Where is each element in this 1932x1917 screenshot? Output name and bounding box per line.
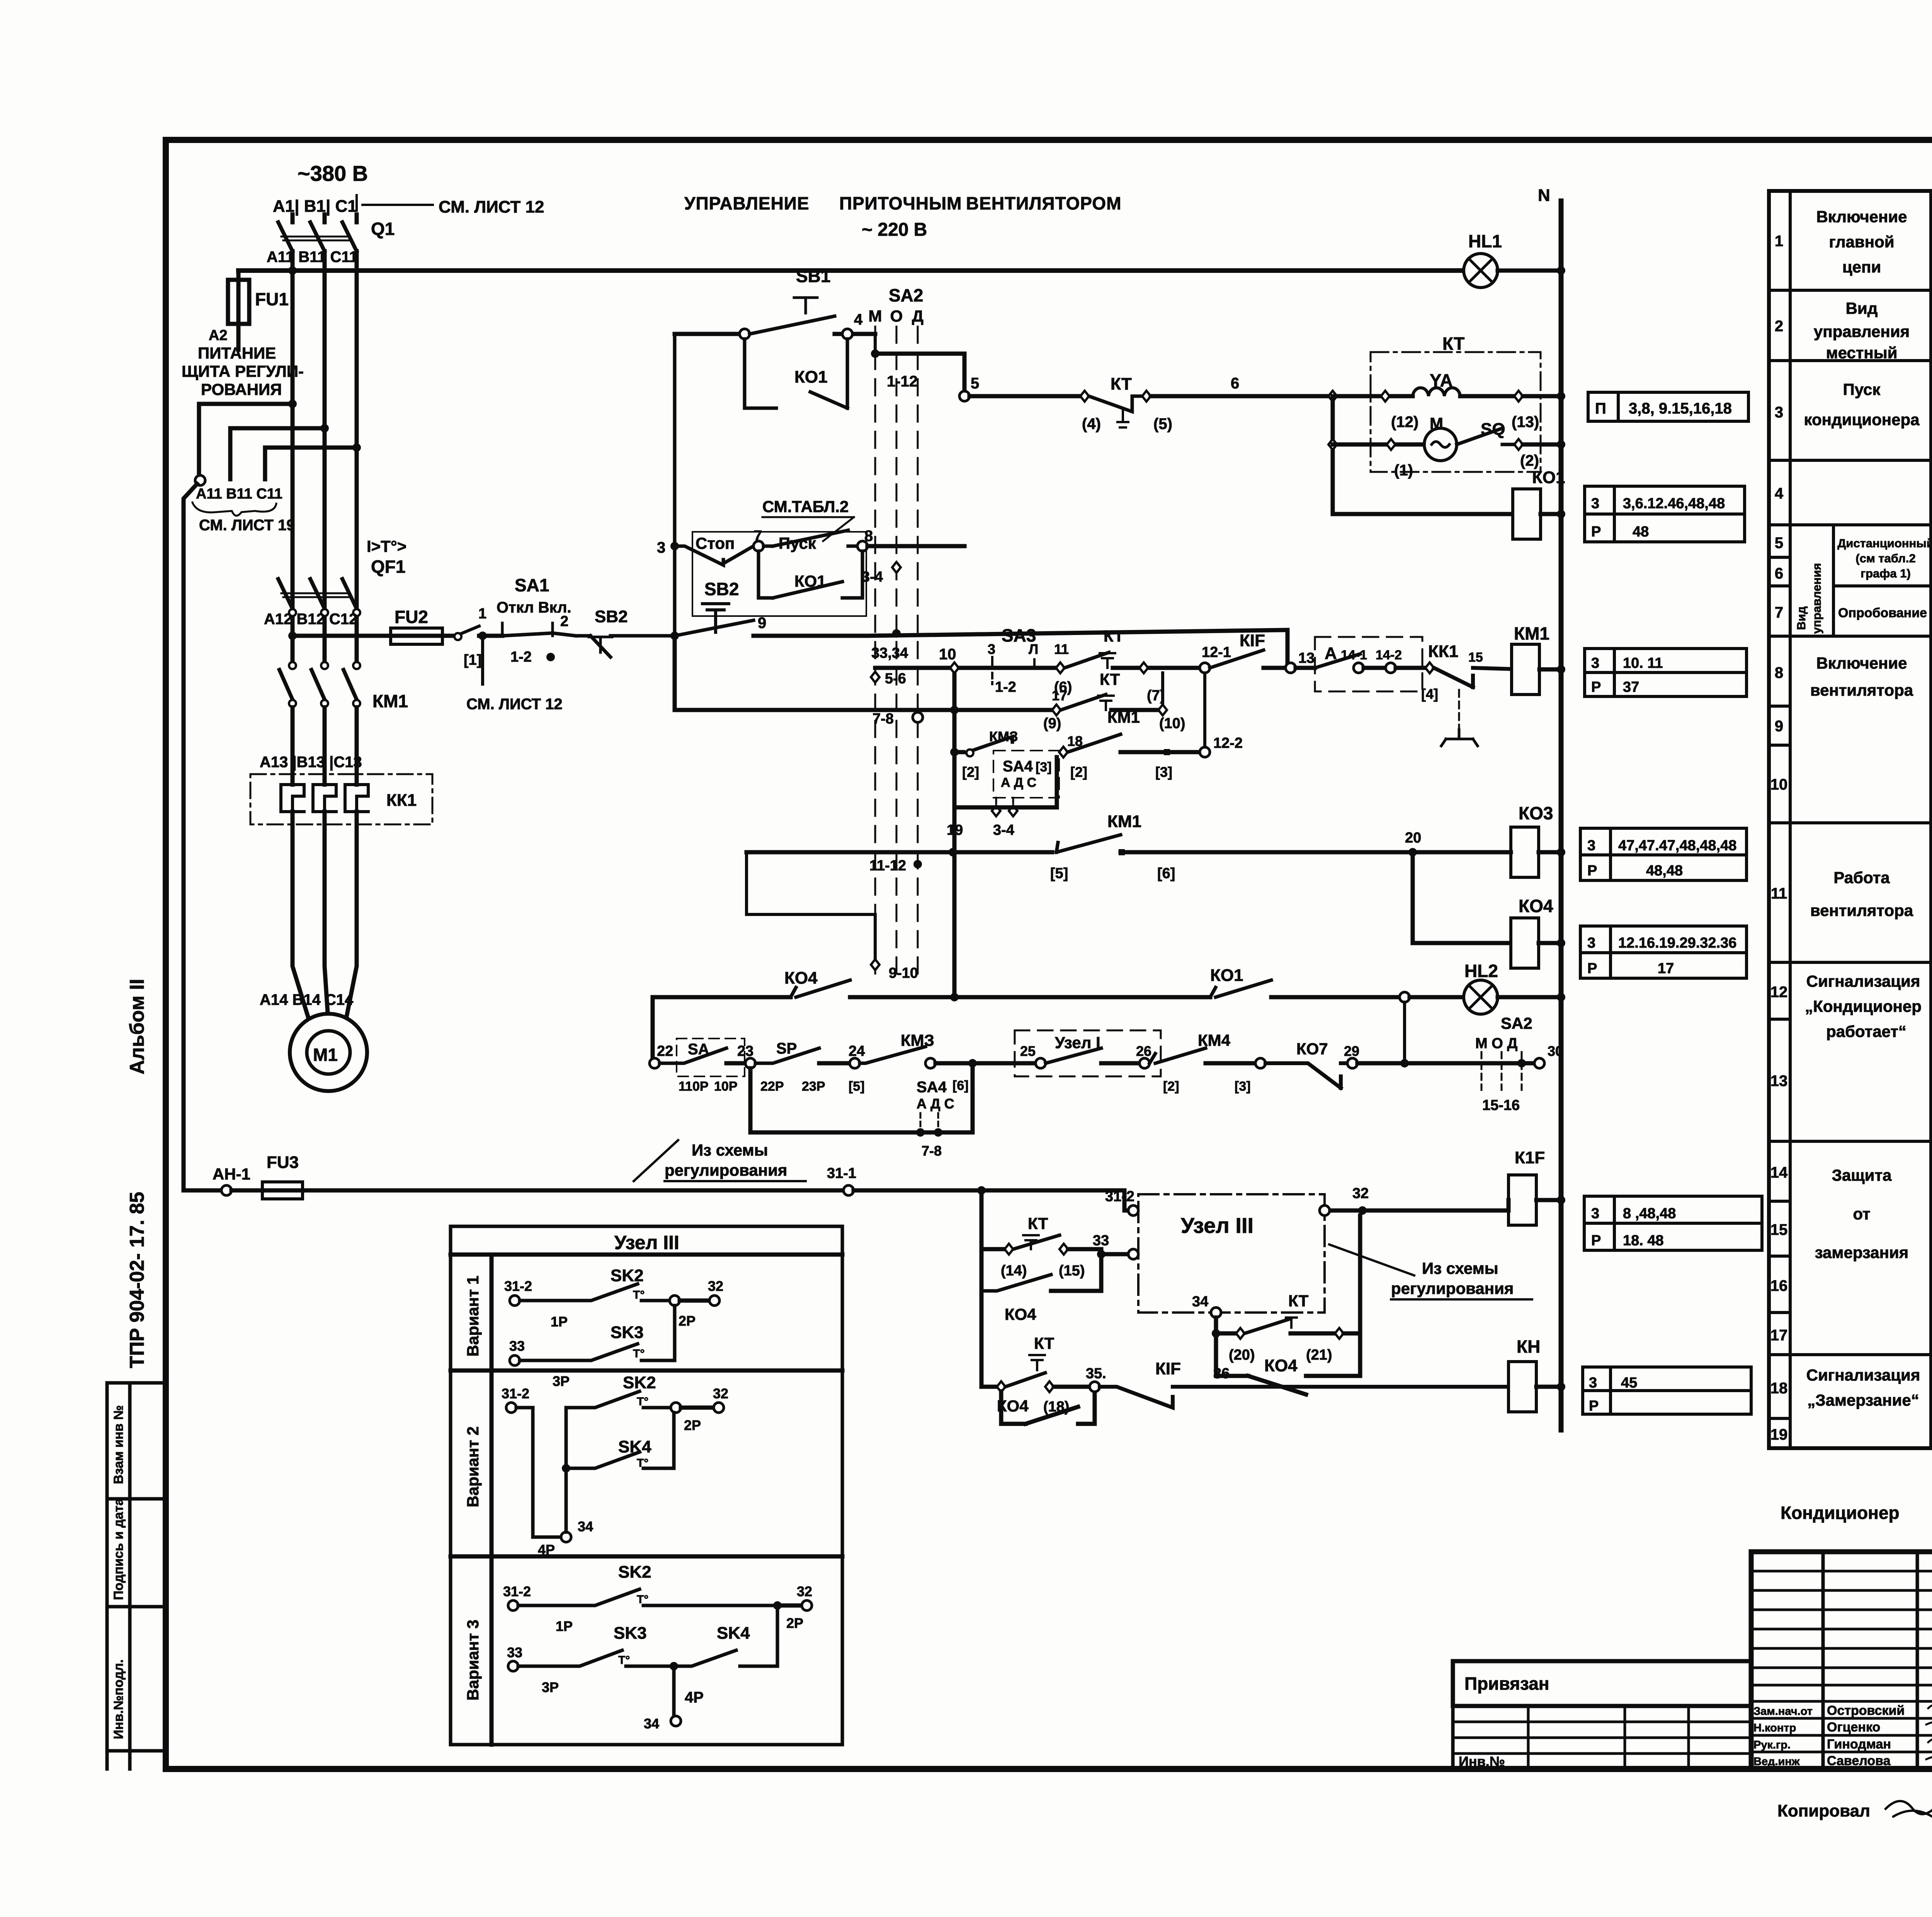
svg-text:48: 48 <box>1633 524 1649 540</box>
left margin stamp column <box>107 1383 166 1769</box>
svg-text:Огценко: Огценко <box>1827 1720 1880 1735</box>
svg-text:управления: управления <box>1810 563 1823 634</box>
svg-text:15: 15 <box>1468 650 1483 665</box>
wire row 22 chain <box>651 997 655 1063</box>
svg-text:(9): (9) <box>1043 715 1061 732</box>
mid rail <box>952 668 957 997</box>
ref box 3/Р 8,48,48 <box>1584 1196 1762 1250</box>
svg-text:(5): (5) <box>1153 415 1172 432</box>
svg-text:10Р: 10Р <box>714 1079 738 1094</box>
svg-text:SA2: SA2 <box>889 285 923 305</box>
phase wires to motor <box>293 812 357 1020</box>
ref box 3/Р 10,11 <box>1585 649 1747 696</box>
svg-text:24: 24 <box>849 1043 865 1059</box>
svg-text:14-2: 14-2 <box>1376 648 1402 662</box>
svg-text:КО4: КО4 <box>1264 1356 1298 1375</box>
svg-text:32: 32 <box>797 1583 812 1599</box>
svg-text:25: 25 <box>1020 1043 1036 1059</box>
svg-text:8 ,48,48: 8 ,48,48 <box>1623 1205 1676 1222</box>
svg-text:14: 14 <box>1770 1164 1788 1181</box>
svg-text:11-12: 11-12 <box>869 858 906 874</box>
svg-text:КМ1: КМ1 <box>1107 812 1141 831</box>
svg-text:9: 9 <box>758 615 766 632</box>
svg-text:SA4: SA4 <box>1003 758 1033 775</box>
svg-text:Инв.№: Инв.№ <box>1459 1754 1505 1769</box>
motor M1 <box>290 1014 367 1091</box>
SA2 contact 9-10 link <box>747 852 875 959</box>
svg-text:16: 16 <box>1770 1277 1788 1294</box>
svg-text:главной: главной <box>1829 233 1894 251</box>
svg-text:Пуск: Пуск <box>1843 380 1881 398</box>
svg-text:ВЕНТИЛЯТОРОМ: ВЕНТИЛЯТОРОМ <box>966 193 1122 213</box>
svg-text:48,48: 48,48 <box>1646 863 1683 879</box>
svg-text:от: от <box>1853 1205 1870 1223</box>
SA2 contact 5-6 <box>871 672 879 683</box>
svg-text:(2): (2) <box>1520 452 1539 469</box>
svg-text:11: 11 <box>1054 641 1069 657</box>
svg-text:А11 В11 С11: А11 В11 С11 <box>267 249 358 266</box>
svg-text:КТ: КТ <box>1442 334 1464 354</box>
svg-text:КIF: КIF <box>1240 631 1265 650</box>
revision grid <box>1823 1552 1932 1769</box>
svg-text:15-16: 15-16 <box>1482 1097 1520 1113</box>
svg-text:Вид: Вид <box>1846 299 1878 317</box>
svg-text:А13 |В13 |С13: А13 |В13 |С13 <box>260 754 362 771</box>
svg-text:УПРАВЛЕНИЕ: УПРАВЛЕНИЕ <box>684 193 810 213</box>
feed wire to FU3 row <box>184 484 197 1190</box>
svg-text:5: 5 <box>971 375 979 392</box>
svg-text:Савелова: Савелова <box>1827 1754 1891 1768</box>
svg-text:1: 1 <box>478 606 486 622</box>
svg-text:П: П <box>1595 400 1606 417</box>
svg-text:QF1: QF1 <box>371 557 405 577</box>
selector SA4 <box>993 751 1059 798</box>
motor element of KT <box>1333 443 1425 447</box>
svg-text:Стоп: Стоп <box>696 534 735 552</box>
svg-text:Вед.инж: Вед.инж <box>1753 1755 1800 1768</box>
svg-text:[5]: [5] <box>1050 865 1068 882</box>
svg-text:SP: SP <box>776 1040 797 1057</box>
svg-text:[2]: [2] <box>1163 1079 1179 1094</box>
svg-text:Альбом II: Альбом II <box>126 979 148 1074</box>
svg-text:3: 3 <box>657 539 665 556</box>
svg-text:SB2: SB2 <box>704 579 739 599</box>
svg-text:14-1: 14-1 <box>1341 648 1367 662</box>
svg-text:Р: Р <box>1587 863 1597 879</box>
svg-text:3: 3 <box>1587 838 1595 854</box>
ref box 3/Р 3,6,12,46,48,48 <box>1585 486 1745 542</box>
svg-text:КТ: КТ <box>1100 670 1120 688</box>
svg-text:Узел III: Узел III <box>1181 1213 1253 1238</box>
svg-text:15: 15 <box>1770 1221 1788 1238</box>
svg-text:10: 10 <box>1770 776 1788 793</box>
node 12-2 <box>1200 747 1210 757</box>
svg-text:3-4: 3-4 <box>993 822 1014 838</box>
node 24 <box>850 1058 860 1068</box>
svg-text:[3]: [3] <box>1036 760 1052 775</box>
svg-text:вентилятора: вентилятора <box>1810 901 1913 919</box>
svg-text:12-2: 12-2 <box>1213 735 1243 751</box>
svg-text:„Замерзание“: „Замерзание“ <box>1807 1391 1919 1409</box>
SA2 position columns dashed <box>875 327 918 978</box>
svg-text:10. 11: 10. 11 <box>1623 655 1663 671</box>
node block Узел III <box>1138 1194 1325 1313</box>
svg-text:~380 В: ~380 В <box>298 161 368 186</box>
svg-text:(10): (10) <box>1159 715 1185 732</box>
svg-text:(см табл.2: (см табл.2 <box>1855 552 1915 565</box>
wire to node 31-2 <box>981 1190 1133 1210</box>
svg-text:36: 36 <box>1213 1365 1230 1382</box>
svg-text:ТПР 904-02- 17. 85: ТПР 904-02- 17. 85 <box>126 1192 148 1368</box>
svg-text:ПРИТОЧНЫМ: ПРИТОЧНЫМ <box>839 193 962 213</box>
svg-text:7-8: 7-8 <box>872 711 894 727</box>
svg-text:2: 2 <box>1775 318 1783 335</box>
svg-text:8: 8 <box>864 528 873 545</box>
svg-text:(12): (12) <box>1391 414 1418 431</box>
svg-text:замерзания: замерзания <box>1815 1243 1909 1262</box>
branch junction <box>1328 391 1337 402</box>
svg-text:4: 4 <box>854 311 863 328</box>
svg-text:(13): (13) <box>1512 414 1539 431</box>
svg-text:7-8: 7-8 <box>922 1143 942 1159</box>
svg-text:3Р: 3Р <box>542 1679 559 1695</box>
svg-text:33: 33 <box>1093 1233 1109 1249</box>
svg-text:КМЗ: КМЗ <box>989 729 1018 744</box>
svg-text:Узел III: Узел III <box>614 1232 679 1253</box>
svg-text:КО7: КО7 <box>1296 1040 1328 1058</box>
svg-text:8: 8 <box>1775 664 1783 681</box>
svg-text:А14 В14 С14: А14 В14 С14 <box>260 991 354 1008</box>
phase wires to KK1 <box>293 707 357 774</box>
wire 32 to K1F coil <box>1325 1209 1357 1213</box>
svg-text:[2]: [2] <box>962 764 979 780</box>
node 1 <box>478 632 487 640</box>
row lines <box>1769 290 1931 1355</box>
svg-text:КМЗ: КМЗ <box>901 1031 934 1049</box>
svg-text:5-6: 5-6 <box>885 671 906 687</box>
svg-text:3: 3 <box>1591 655 1599 671</box>
svg-text:SK3: SK3 <box>611 1323 644 1342</box>
svg-text:(1): (1) <box>1394 462 1413 479</box>
svg-text:9: 9 <box>1775 718 1783 735</box>
inventory grid <box>1453 1706 1751 1769</box>
svg-text:11: 11 <box>1771 885 1787 902</box>
branch to KT bypass <box>980 1190 984 1291</box>
svg-text:Копировал: Копировал <box>1777 1801 1870 1820</box>
thermal relay KK1 heaters <box>250 774 432 824</box>
svg-text:31-2: 31-2 <box>503 1583 531 1599</box>
svg-text:КМ1: КМ1 <box>1514 623 1549 644</box>
svg-text:местный: местный <box>1826 344 1898 362</box>
wire row 10 <box>875 666 950 670</box>
svg-text:М О Д: М О Д <box>1475 1035 1517 1052</box>
svg-text:34: 34 <box>578 1519 593 1534</box>
svg-text:А2: А2 <box>209 327 228 344</box>
svg-text:Опробование: Опробование <box>1838 606 1927 620</box>
control bus wire to N <box>238 268 1465 273</box>
svg-text:М: М <box>869 307 882 325</box>
svg-text:(6): (6) <box>1054 679 1072 695</box>
svg-text:(14): (14) <box>1001 1263 1027 1279</box>
ref box 3/Р 12.16.19.29.32.36 <box>1580 926 1747 978</box>
svg-text:FU3: FU3 <box>267 1153 299 1172</box>
node 35 <box>1090 1382 1100 1392</box>
svg-text:32: 32 <box>1352 1185 1369 1202</box>
svg-text:Из схемы: Из схемы <box>1422 1259 1498 1277</box>
svg-text:[1]: [1] <box>464 652 481 668</box>
node block Узел I <box>1015 1030 1161 1076</box>
svg-text:КТ: КТ <box>1288 1292 1309 1310</box>
svg-text:7: 7 <box>1775 604 1783 621</box>
svg-text:3: 3 <box>1589 1375 1597 1391</box>
svg-text:КН: КН <box>1517 1336 1540 1357</box>
wire row 18 <box>981 1291 997 1387</box>
wire to sheet 12 <box>481 636 484 684</box>
svg-text:КО4: КО4 <box>784 969 818 987</box>
svg-text:Подпись и дата: Подпись и дата <box>111 1498 126 1600</box>
wire 5 to KT contact <box>969 394 1080 398</box>
svg-text:6: 6 <box>1231 375 1239 392</box>
left rail lower <box>673 636 677 710</box>
svg-text:Р: Р <box>1587 960 1597 977</box>
svg-text:Р: Р <box>1591 679 1601 695</box>
tap wire A11 <box>288 400 297 408</box>
svg-text:вентилятора: вентилятора <box>1810 681 1913 699</box>
svg-text:HL1: HL1 <box>1468 231 1502 251</box>
svg-text:31-2: 31-2 <box>504 1278 532 1294</box>
svg-text:HL2: HL2 <box>1464 961 1498 981</box>
SA2 contact 1-12 <box>874 334 877 354</box>
svg-text:Вариант 1: Вариант 1 <box>464 1276 482 1357</box>
row captions <box>1804 208 1932 1409</box>
node 34 bypass <box>1211 1308 1221 1318</box>
svg-text:КК1: КК1 <box>1428 642 1458 661</box>
svg-text:2: 2 <box>560 613 568 630</box>
svg-text:45: 45 <box>1621 1375 1637 1391</box>
svg-text:КО1: КО1 <box>1532 468 1565 487</box>
svg-text:22: 22 <box>657 1043 673 1059</box>
svg-text:работает“: работает“ <box>1826 1022 1906 1040</box>
svg-text:SK2: SK2 <box>618 1563 651 1582</box>
contact [1] <box>456 626 479 636</box>
left control rail <box>673 334 677 636</box>
svg-text:(20): (20) <box>1229 1347 1255 1363</box>
svg-text:Н.контр: Н.контр <box>1753 1722 1796 1734</box>
ammeter box A <box>1315 637 1422 691</box>
svg-text:управления: управления <box>1814 322 1910 340</box>
svg-text:[2]: [2] <box>1070 764 1087 780</box>
wire node4 to node5 <box>875 354 964 396</box>
fuse FU1 <box>236 271 241 350</box>
svg-text:(21): (21) <box>1306 1347 1332 1363</box>
svg-text:34: 34 <box>1192 1294 1208 1310</box>
svg-text:Q1: Q1 <box>371 219 395 239</box>
svg-text:(15): (15) <box>1059 1263 1085 1279</box>
svg-text:А12 В12 С12: А12 В12 С12 <box>264 611 357 628</box>
SA4 bypass wire <box>954 757 1057 807</box>
svg-text:Гинодман: Гинодман <box>1827 1737 1891 1752</box>
svg-text:3,8, 9.15,16,18: 3,8, 9.15,16,18 <box>1629 400 1732 417</box>
svg-text:4Р: 4Р <box>685 1689 704 1706</box>
relay KT enclosure <box>1371 352 1541 472</box>
svg-text:Зам.нач.от: Зам.нач.от <box>1753 1705 1813 1718</box>
svg-text:33,34: 33,34 <box>871 645 908 661</box>
ref box П 3,8,9,15,16,18 <box>1588 392 1748 421</box>
svg-text:12-1: 12-1 <box>1202 644 1231 661</box>
svg-text:КО3: КО3 <box>1519 803 1553 823</box>
svg-text:37: 37 <box>1623 679 1639 695</box>
svg-text:А Д С: А Д С <box>917 1096 954 1112</box>
row numbers <box>1770 233 1788 1443</box>
svg-text:SK4: SK4 <box>717 1624 750 1643</box>
svg-text:33: 33 <box>507 1645 522 1660</box>
svg-text:КМ4: КМ4 <box>1198 1031 1231 1049</box>
svg-text:Сигнализация: Сигнализация <box>1806 1366 1920 1384</box>
svg-text:1Р: 1Р <box>551 1314 568 1330</box>
svg-text:Вариант 2: Вариант 2 <box>464 1427 482 1508</box>
wire row KM1 aux <box>954 750 963 754</box>
wire C1 to see sheet 12 <box>362 204 433 206</box>
contact KM1 [5][6] <box>1056 835 1121 852</box>
relay coil KO4 <box>1413 852 1511 943</box>
svg-text:цепи: цепи <box>1842 258 1881 276</box>
svg-text:31-1: 31-1 <box>827 1165 856 1182</box>
svg-text:КТ: КТ <box>1028 1214 1048 1233</box>
svg-text:2Р: 2Р <box>679 1313 696 1329</box>
wire 9 across to node 13 <box>753 630 1287 668</box>
svg-text:Вид: Вид <box>1794 606 1808 630</box>
svg-text:N: N <box>1538 186 1550 205</box>
svg-text:2Р: 2Р <box>786 1615 803 1631</box>
svg-text:12.16.19.29.32.36: 12.16.19.29.32.36 <box>1618 935 1736 951</box>
tap wire C11 <box>352 443 361 452</box>
svg-text:19: 19 <box>1770 1426 1788 1443</box>
svg-text:3: 3 <box>1587 935 1595 951</box>
link cell Привязан <box>1453 1661 1751 1706</box>
svg-text:32: 32 <box>708 1278 723 1294</box>
svg-text:SK2: SK2 <box>623 1373 656 1392</box>
wire node8 to SA2 <box>867 544 964 548</box>
svg-text:[6]: [6] <box>952 1078 969 1093</box>
svg-text:3-4: 3-4 <box>862 569 883 585</box>
svg-text:ЩИТА РЕГУЛИ-: ЩИТА РЕГУЛИ- <box>182 362 304 380</box>
svg-text:18: 18 <box>1770 1380 1788 1397</box>
svg-text:SA1: SA1 <box>515 575 549 595</box>
ref box 3/Р 45 <box>1583 1367 1751 1414</box>
svg-text:К1F: К1F <box>1515 1148 1545 1167</box>
svg-text:34: 34 <box>644 1716 659 1731</box>
svg-text:КО4: КО4 <box>1005 1305 1036 1323</box>
svg-text:19: 19 <box>947 822 963 838</box>
svg-text:18. 48: 18. 48 <box>1623 1233 1664 1249</box>
svg-text:„Кондиционер: „Кондиционер <box>1805 997 1922 1015</box>
node block table Узел III <box>451 1226 842 1745</box>
svg-text:Включение: Включение <box>1816 654 1907 672</box>
svg-text:О: О <box>890 307 903 325</box>
note СМ.ЛИСТ 19 <box>192 502 276 516</box>
svg-text:А Д С: А Д С <box>1001 775 1036 790</box>
svg-text:3: 3 <box>1591 1205 1599 1222</box>
wire row KT lower <box>675 708 1052 712</box>
svg-text:1: 1 <box>1775 233 1783 250</box>
svg-text:СМ.ТАБЛ.2: СМ.ТАБЛ.2 <box>762 497 849 516</box>
node 3 junction <box>670 632 679 640</box>
svg-text:23: 23 <box>737 1043 753 1059</box>
svg-text:КК1: КК1 <box>386 791 417 810</box>
svg-text:Работа: Работа <box>1833 868 1890 887</box>
tap wire B11 <box>320 424 329 432</box>
svg-text:2Р: 2Р <box>684 1417 701 1433</box>
svg-text:АН-1: АН-1 <box>213 1165 250 1183</box>
svg-text:3: 3 <box>988 641 995 657</box>
svg-text:Л: Л <box>1029 641 1038 657</box>
svg-text:[6]: [6] <box>1157 865 1175 882</box>
svg-text:12: 12 <box>1770 984 1788 1001</box>
svg-text:Из схемы: Из схемы <box>692 1141 768 1159</box>
svg-text:20: 20 <box>1405 830 1421 846</box>
svg-text:Защита: Защита <box>1832 1166 1892 1184</box>
svg-text:КМ1: КМ1 <box>1107 708 1140 726</box>
svg-text:1-2: 1-2 <box>995 679 1016 695</box>
svg-text:Р: Р <box>1589 1398 1599 1414</box>
svg-text:СМ. ЛИСТ 12: СМ. ЛИСТ 12 <box>466 696 563 713</box>
switch SA in regulation <box>677 1039 745 1076</box>
svg-text:СМ. ЛИСТ 19: СМ. ЛИСТ 19 <box>199 517 295 534</box>
phase wires A B C vertical <box>293 251 357 653</box>
svg-text:17: 17 <box>1770 1327 1788 1344</box>
node 20 <box>1408 848 1417 856</box>
control post enclosure <box>692 532 866 616</box>
wire A2 stub <box>236 332 241 350</box>
svg-text:КМ1: КМ1 <box>372 691 408 711</box>
svg-text:кондиционера: кондиционера <box>1804 410 1920 429</box>
svg-text:Д: Д <box>912 307 923 325</box>
N rail <box>1559 201 1564 1430</box>
svg-text:3,6.12.46,48,48: 3,6.12.46,48,48 <box>1623 495 1725 512</box>
node 13 <box>1286 663 1296 673</box>
svg-text:А11 В11 С11: А11 В11 С11 <box>196 486 282 502</box>
svg-text:Сигнализация: Сигнализация <box>1806 972 1920 990</box>
svg-text:32: 32 <box>713 1386 728 1401</box>
node 23 <box>745 1058 755 1068</box>
svg-text:4Р: 4Р <box>538 1542 555 1558</box>
svg-text:Включение: Включение <box>1816 208 1907 226</box>
svg-text:Р: Р <box>1591 524 1601 540</box>
svg-text:СМ. ЛИСТ 12: СМ. ЛИСТ 12 <box>439 197 544 216</box>
svg-text:Рук.гр.: Рук.гр. <box>1753 1739 1791 1751</box>
svg-text:КТ: КТ <box>1034 1334 1054 1352</box>
svg-text:Дистанционный: Дистанционный <box>1837 536 1932 550</box>
wire row 12 signal <box>653 995 791 999</box>
svg-text:[3]: [3] <box>1235 1079 1251 1094</box>
svg-text:М1: М1 <box>313 1045 338 1065</box>
title block outline <box>1751 1552 1932 1769</box>
svg-text:47,47.47,48,48,48: 47,47.47,48,48,48 <box>1618 838 1736 854</box>
wire FU2 to SA1 <box>391 634 456 638</box>
svg-text:[3]: [3] <box>1155 764 1172 780</box>
function table frame <box>1769 191 1931 1448</box>
SA2 contact 33-34 <box>892 629 901 638</box>
svg-text:31-2: 31-2 <box>1105 1188 1134 1205</box>
svg-text:29: 29 <box>1344 1043 1359 1059</box>
svg-text:13: 13 <box>1770 1073 1788 1090</box>
svg-text:Инв.№подл.: Инв.№подл. <box>111 1659 126 1739</box>
svg-text:3: 3 <box>1775 404 1783 421</box>
svg-text:Вариант 3: Вариант 3 <box>464 1620 482 1701</box>
svg-text:КО4: КО4 <box>1519 896 1553 916</box>
junction dots on bus <box>288 266 297 275</box>
svg-text:Т°: Т° <box>633 1347 645 1360</box>
